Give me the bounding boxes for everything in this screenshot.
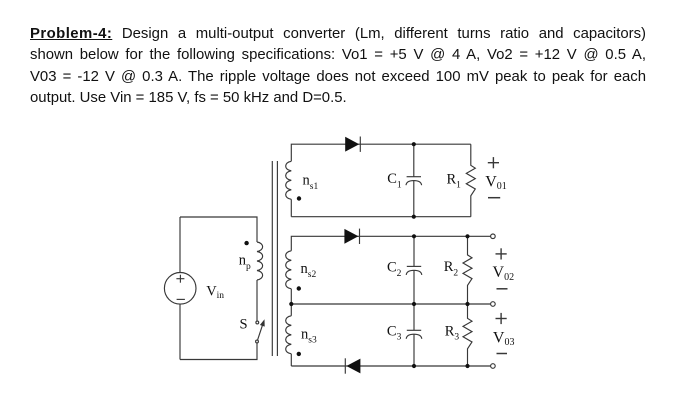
svg-text:V02: V02: [493, 264, 515, 283]
wire secondary1 left lower: [290, 199, 292, 216]
junction node R2-R3 middle: [465, 302, 469, 306]
junction node C1 top: [412, 142, 416, 146]
svg-text:ns1: ns1: [303, 172, 319, 192]
wire primary loop top: [180, 217, 257, 242]
inductor winding ns2: [286, 251, 292, 289]
svg-text:Vin: Vin: [206, 283, 224, 301]
inductor winding ns1: [286, 161, 292, 199]
junction node R3 bottom: [465, 364, 469, 368]
wire secondary1 top: [291, 144, 471, 161]
diode D3: [345, 358, 360, 373]
wire primary left upper: [179, 217, 181, 273]
inductor primary winding np: [257, 242, 263, 280]
source minus sign: [177, 298, 185, 300]
junction node middle-left: [289, 302, 293, 306]
resistor R1: [466, 144, 475, 217]
svg-text:R1: R1: [447, 172, 462, 191]
junction node C1 bottom: [412, 215, 416, 219]
terminal V02 minus mark: [497, 288, 508, 290]
svg-text:C2: C2: [387, 260, 402, 279]
wire ns3 top: [290, 304, 292, 316]
svg-text:C1: C1: [387, 171, 402, 190]
capacitor C2: [406, 236, 422, 304]
terminal circle out2 top: [491, 234, 496, 239]
svg-text:V03: V03: [493, 329, 515, 348]
svg-text:C3: C3: [387, 324, 402, 343]
wire middle (shared): [291, 303, 490, 305]
phase dot np: [244, 241, 248, 245]
svg-text:np: np: [239, 252, 251, 272]
junction node C2 top: [412, 234, 416, 238]
wire secondary3 bottom: [291, 365, 490, 367]
diode D1: [345, 137, 360, 152]
svg-text:ns3: ns3: [301, 327, 317, 346]
wire secondary2 top: [291, 236, 490, 251]
capacitor C1: [406, 144, 422, 217]
capacitor C3: [406, 304, 422, 366]
svg-text:R2: R2: [444, 259, 459, 279]
resistor R3: [463, 304, 472, 366]
wire ns2 bottom to middle: [290, 289, 292, 304]
terminal V02 plus mark: [496, 248, 507, 259]
diode D2: [344, 229, 359, 244]
junction node C3 bottom: [412, 364, 416, 368]
svg-text:S: S: [240, 316, 248, 332]
svg-text:V01: V01: [485, 174, 507, 192]
wire primary to switch: [256, 280, 258, 321]
inductor winding ns3: [286, 316, 292, 354]
wire ns3 bottom: [290, 354, 292, 366]
junction node C2-C3 middle: [412, 302, 416, 306]
terminal V01 plus mark: [488, 157, 499, 168]
phase dot ns1: [297, 196, 301, 200]
junction node R2 top: [465, 234, 469, 238]
source plus sign: [176, 275, 184, 283]
switch S: [256, 319, 265, 343]
terminal V03 plus mark: [496, 313, 507, 324]
resistor R2: [463, 236, 472, 304]
phase dot ns3: [297, 352, 301, 356]
svg-text:ns2: ns2: [301, 261, 317, 280]
wire primary bottom: [180, 343, 257, 360]
terminal circle out3 bottom: [491, 364, 496, 369]
source Vin: [164, 273, 196, 305]
svg-text:R3: R3: [445, 323, 460, 342]
wire primary left lower: [179, 304, 181, 359]
terminal V03 minus mark: [497, 353, 508, 355]
transformer core: [272, 161, 277, 356]
wire secondary1 bottom: [291, 216, 471, 218]
terminal circle out2/out3 middle: [491, 302, 496, 307]
terminal V01 minus mark: [488, 197, 500, 199]
phase dot ns2: [297, 286, 301, 290]
